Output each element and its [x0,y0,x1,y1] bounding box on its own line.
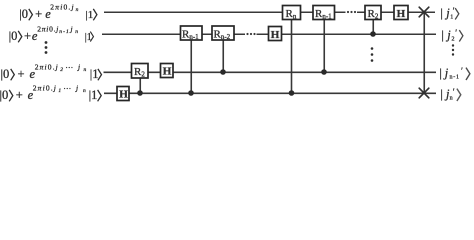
svg-text:…: … [63,82,71,91]
svg-text:j: j [75,83,78,92]
svg-text:′: ′ [461,66,463,76]
svg-text:2πi0.j: 2πi0.j [37,24,58,33]
svg-text:′: ′ [453,6,455,16]
svg-text:…: … [65,61,73,70]
svg-text:2πi0.j: 2πi0.j [50,2,73,11]
svg-text:n: n [84,67,87,73]
svg-text:2πi0.j: 2πi0.j [33,83,56,92]
svg-text:2πi0.j: 2πi0.j [35,62,58,71]
svg-text:|1: |1 [90,67,99,81]
svg-text:+: + [18,67,25,81]
svg-text:+: + [35,7,42,21]
svg-text:|1: |1 [86,9,94,21]
svg-text:2: 2 [60,67,63,73]
svg-text:|: | [440,6,443,20]
svg-text:|: | [439,66,442,80]
svg-text:H: H [163,66,172,78]
svg-text:|: | [441,28,444,42]
svg-text:n: n [83,88,86,94]
svg-text:n: n [76,7,79,13]
svg-text:H: H [119,89,128,101]
svg-text:H: H [271,29,280,41]
svg-text:|0: |0 [9,29,18,43]
svg-text:j: j [77,62,80,71]
svg-text:+: + [24,29,31,43]
svg-text:|: | [440,87,443,101]
svg-text:+: + [16,88,23,102]
svg-text:′: ′ [455,28,457,38]
svg-text:2: 2 [452,37,455,43]
svg-text:n: n [75,29,78,35]
svg-text:′: ′ [453,87,455,97]
svg-text:1: 1 [58,88,61,94]
svg-text:|0: |0 [1,67,10,81]
svg-text:n-1: n-1 [450,75,460,81]
svg-text:j: j [70,24,73,33]
svg-text:H: H [397,8,406,20]
svg-text:|0: |0 [0,88,8,102]
svg-text:|0: |0 [19,7,28,21]
svg-text:n-1: n-1 [59,29,69,35]
svg-text:|1: |1 [89,88,98,102]
